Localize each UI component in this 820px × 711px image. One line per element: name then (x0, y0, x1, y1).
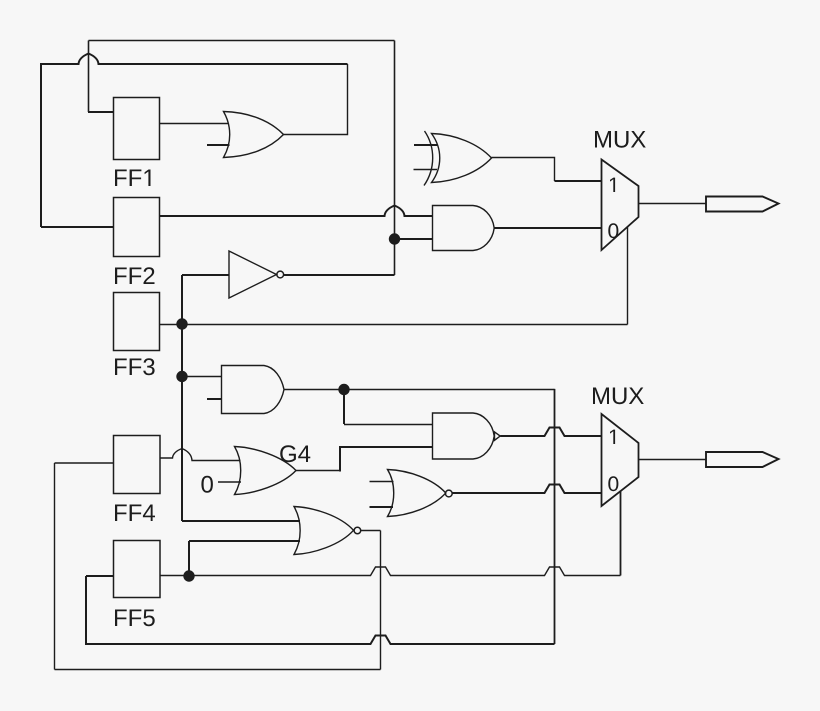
wire inverter output riser up to top line (394, 41, 396, 276)
wire AND1 output to MUX1 input 0 (494, 227, 602, 229)
output pin connector 1 (706, 197, 779, 212)
junction dot on inverter riser (389, 233, 400, 244)
wire junction to AND2 upper input (182, 376, 222, 378)
wire to inverter input (182, 274, 229, 276)
or-gate OR1 (224, 112, 284, 158)
wire NOR1 output to MUX2 input 0, hop over right bus (452, 485, 602, 494)
wire FF1 output to OR1 (160, 123, 229, 125)
mux MUX1 (595, 131, 646, 250)
wire bottom run to FF5 input, hop over NOR2 feedback drop (86, 636, 555, 645)
flip-flop FF3 (114, 293, 160, 376)
junction dot FF3 output (176, 318, 187, 329)
wire G4 output up to NAND1 lower input (296, 447, 433, 472)
wire FF1 input drop (88, 41, 114, 113)
xor-gate XOR1 (424, 131, 492, 186)
wire vertical bus to NOR2 upper input (182, 520, 300, 522)
junction dot AND2 upper input (176, 371, 187, 382)
wire NOR2 output feedback to FF4 input (55, 463, 381, 670)
wire OR1 lower input stub (207, 144, 230, 146)
flip-flop FF1 (114, 98, 160, 187)
junction dot AND2 output (338, 384, 349, 395)
wire XOR1 output to MUX1 input 1 (492, 158, 602, 182)
wire NOR1 upper input stub (370, 481, 394, 483)
wire MUX1 select riser from FF3 output line (627, 227, 629, 325)
wire AND2 output to right bus corner (284, 389, 555, 391)
and-gate AND1 (433, 206, 495, 251)
wire FF5 output to MUX2 select, hops over NOR2 drop and right bus (189, 567, 621, 576)
constant 0 input to G4 (201, 476, 241, 493)
wire XOR1 lower input stub (414, 169, 438, 171)
wire FF5 output junction up to NOR2 lower input (189, 541, 300, 576)
wire FF5 output to junction (160, 575, 189, 577)
wire MUX1 output (639, 203, 706, 205)
wire NAND1 output to MUX2 input 1, hop over right bus (500, 428, 601, 437)
flip-flop FF5 (114, 541, 161, 627)
and-gate AND2 (222, 366, 285, 414)
wire junction to AND1 lower input (395, 238, 433, 240)
wire OR1 output riser (284, 64, 348, 135)
wire NOR1 lower input stub (370, 506, 394, 508)
wire top feedback line from inverter output to FF1 input (89, 40, 395, 42)
wire FF3 output line to MUX1 select riser (160, 324, 628, 326)
flip-flop FF2 (114, 198, 160, 285)
flip-flop FF4 (114, 436, 161, 522)
nor-gate NOR1 (388, 470, 453, 517)
mux MUX2 (593, 388, 644, 507)
wire OR1 output to FF2 input, hop over FF1 drop (41, 54, 348, 65)
inverter U1 (229, 251, 284, 298)
or-gate G4 (235, 445, 311, 494)
wire FF2 output to AND1 upper input, hop over inverter riser (160, 206, 433, 217)
wire vertical bus from inverter input down to NOR2 upper input (181, 275, 183, 521)
wire junction down to NAND1 upper input (344, 390, 433, 425)
wire left drop to FF2 input (41, 63, 114, 227)
nand-gate NAND1 (433, 413, 501, 459)
wire MUX2 output (639, 459, 706, 461)
junction dot FF5 output (183, 570, 194, 581)
wire right bus: AND2 output corner down to bottom run (554, 389, 556, 644)
nor-gate NOR2 (294, 507, 361, 555)
wire AND2 lower input stub (207, 398, 222, 400)
wire FF5 input riser (86, 576, 114, 645)
wire XOR1 upper input stub (414, 144, 438, 146)
wire FF4 output to G4 upper input, hop over vertical bus (160, 449, 241, 461)
output pin connector 2 (706, 452, 779, 467)
wire inverter output to riser (284, 274, 395, 276)
wire MUX2 select riser (620, 491, 622, 576)
